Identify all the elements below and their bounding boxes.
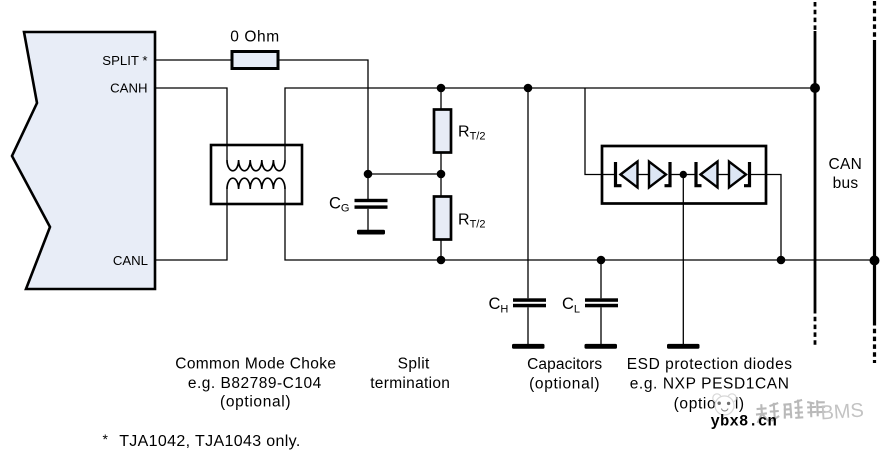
resistor RT/2 upper — [434, 110, 451, 153]
wire RT1 to RT2 — [440, 153, 442, 197]
ground CL — [585, 344, 618, 349]
wire box left to diode 1 — [602, 174, 616, 176]
diode D2b — [729, 162, 746, 188]
CANH bus line — [814, 2, 817, 347]
svg-text:Common Mode Choke: Common Mode Choke — [175, 356, 336, 373]
node ESD center — [680, 171, 687, 178]
diode D1b — [649, 162, 666, 188]
wire choke to CANH bus — [285, 88, 815, 160]
wire D2a to D2b — [718, 174, 730, 176]
CANL bus line — [873, 1, 876, 363]
diode D2b cathode bar — [744, 162, 750, 186]
svg-text:0 Ohm: 0 Ohm — [230, 28, 280, 45]
svg-text:(optional): (optional) — [220, 394, 291, 411]
ground CH — [512, 344, 545, 349]
resistor RT/2 lower — [434, 197, 451, 240]
wire CANH to RT1 — [440, 88, 442, 110]
svg-text:ybx8.cn: ybx8.cn — [711, 413, 778, 431]
wire CANH to ESD left — [585, 88, 602, 175]
ESD protection diodes D1 box — [602, 146, 766, 204]
wire split node to RT junction — [368, 173, 441, 175]
diode D1b cathode bar — [665, 162, 671, 186]
diode D2a — [701, 162, 718, 188]
watermark logo panda — [713, 394, 736, 415]
svg-text:*: * — [103, 431, 109, 447]
diode D1a cathode bar — [616, 162, 622, 186]
capacitor CL — [585, 260, 618, 344]
wire CANL pin to choke — [155, 189, 227, 260]
node split termination — [364, 170, 373, 179]
svg-text:(optional): (optional) — [529, 376, 600, 393]
svg-text:BMS: BMS — [820, 400, 865, 425]
wire D1b to center node — [670, 174, 683, 176]
transceiver block U1 — [12, 32, 155, 289]
common mode choke L1 — [211, 145, 302, 204]
node CANL at RT — [437, 256, 446, 265]
svg-text:e.g. B82789-C104: e.g. B82789-C104 — [188, 375, 322, 392]
wire ESD center to ground — [682, 175, 684, 345]
resistor R1 0 Ohm — [232, 52, 278, 69]
wire RT2 to CANL — [440, 240, 442, 261]
diode D1a — [621, 162, 638, 188]
svg-text:CAN: CAN — [829, 156, 862, 173]
wire choke to CANL bus — [285, 189, 876, 260]
wire R1 to split node — [278, 60, 368, 174]
node CANH at CH — [524, 84, 533, 93]
ground CG — [357, 230, 385, 235]
wire SPLIT pin to R1 — [155, 59, 232, 61]
capacitor CH — [513, 88, 546, 344]
node CANH bus — [810, 83, 820, 93]
svg-text:CANL: CANL — [113, 253, 148, 268]
diode D2a cathode bar — [696, 162, 702, 186]
node CANL at CL — [597, 256, 606, 265]
svg-text:Split: Split — [398, 356, 430, 373]
svg-text:bus: bus — [833, 175, 859, 192]
svg-text:ESD protection diodes: ESD protection diodes — [627, 356, 793, 373]
node RT mid junction — [437, 170, 446, 179]
wire ESD right to CANL — [766, 175, 781, 261]
svg-text:SPLIT *: SPLIT * — [102, 53, 147, 68]
svg-text:termination: termination — [370, 375, 450, 392]
svg-text:e.g. NXP PESD1CAN: e.g. NXP PESD1CAN — [630, 376, 790, 393]
node CANH at RT — [437, 84, 446, 93]
node CANL at ESD — [777, 256, 786, 265]
wire D2b to box right — [750, 174, 767, 176]
svg-text:CANH: CANH — [110, 80, 147, 95]
node CANL bus — [870, 256, 880, 266]
svg-text:TJA1042, TJA1043 only.: TJA1042, TJA1043 only. — [119, 433, 300, 450]
watermark chinese characters — [755, 398, 826, 423]
ground ESD — [667, 344, 700, 349]
wire D1a to D1b — [638, 174, 650, 176]
svg-text:Capacitors: Capacitors — [527, 356, 602, 373]
wire CANH pin to choke — [155, 88, 227, 160]
wire center node to D2a — [683, 174, 696, 176]
capacitor CG — [355, 174, 388, 230]
